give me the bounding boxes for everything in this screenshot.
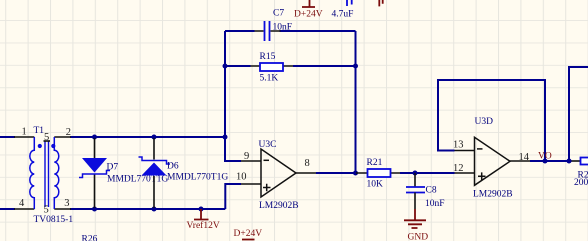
minus sign [264,159,270,161]
svg-text:4: 4 [19,198,25,209]
wire U3D feedback loop [438,80,545,161]
svg-text:D+24V: D+24V [234,229,263,239]
junction C8 node [413,171,418,176]
wire/pins vertical [153,138,155,208]
svg-text:D6: D6 [167,161,179,171]
pin 10 stub [241,183,261,185]
wire top rail y=137 from left edge to x=225 [0,136,225,138]
anode triangle [82,158,107,173]
capacitor C8 [406,173,445,209]
diode D6 [139,138,229,208]
svg-text:2: 2 [66,127,71,138]
junction R15 right [353,64,358,69]
wire R15 row y=66 [225,65,356,67]
svg-text:Vref12V: Vref12V [187,220,220,231]
svg-text:1: 1 [22,126,27,137]
op-amp U3D [453,117,530,200]
svg-text:3: 3 [64,198,69,209]
power port D+24V top [294,0,323,20]
svg-text:U3C: U3C [259,140,277,150]
svg-text:R15: R15 [260,52,276,62]
power port D+24V bottom [234,229,263,239]
svg-text:5.1K: 5.1K [260,74,279,84]
wire bottom rail y=209 from left edge to x=225.3 [0,208,225,210]
anode triangle [142,163,167,176]
svg-text:VO: VO [538,152,552,162]
ground GND [404,209,428,241]
power port Vref12V [187,209,220,231]
svg-text:10: 10 [236,171,247,182]
svg-text:U3D: U3D [475,117,494,127]
svg-text:200: 200 [574,178,588,188]
svg-text:LM2902B: LM2902B [259,201,299,211]
wire right vertical x=355.5 [355,31,357,173]
right winding [54,137,59,209]
svg-text:14: 14 [519,152,530,163]
svg-text:TV0815-1: TV0815-1 [34,215,74,225]
wire from pin 10 down to bottom rail [225,184,241,209]
shield lines [45,141,49,207]
junction x=569 [567,159,572,164]
junction dots on rails [92,135,97,140]
wire C7 top horizontal y=31 [225,30,356,32]
polarity dot left [38,144,42,148]
op-amp U3C [236,140,316,211]
svg-text:LM2902B: LM2902B [473,190,513,200]
capacitor C7 [255,9,293,41]
transformer T1 [14,126,73,225]
minus sign [477,148,483,150]
wire/pins vertical [94,138,96,208]
wire U3D output y=161 [530,160,572,162]
pin 12 stub [455,172,475,174]
svg-text:C7: C7 [273,9,284,19]
svg-text:R21: R21 [367,158,383,168]
plus sign [478,172,486,180]
resistor partial at right edge [572,158,588,188]
pin 1 [14,136,34,138]
svg-text:12: 12 [453,163,464,174]
svg-text:D7: D7 [107,162,119,172]
svg-text:8: 8 [305,158,310,169]
svg-text:4.7uF: 4.7uF [332,10,354,20]
resistor R21 [356,158,400,189]
svg-text:5: 5 [44,132,49,143]
schottky cathode bar [79,171,110,178]
polarity dot right [51,144,55,148]
svg-text:10nF: 10nF [273,22,293,32]
svg-text:GND: GND [408,233,429,241]
junction R15 left [223,64,228,69]
junction feedback/output [543,159,548,164]
junction output/feedback [353,171,358,176]
svg-text:T1: T1 [34,126,45,136]
svg-text:MMDL770T1G: MMDL770T1G [107,175,168,185]
capacitor 4.7uF fragment at top edge [332,0,354,20]
power symbol fragment top right [379,0,382,6]
wire output row y=173 [316,172,455,174]
pin 13 stub [455,150,475,152]
pin 2 [54,136,71,138]
pin 4 [14,208,34,210]
pin 14 stub [510,160,530,162]
plus sign [263,184,271,191]
svg-text:R26: R26 [82,235,98,241]
svg-text:10nF: 10nF [425,199,445,209]
resistor R15 [251,52,294,84]
svg-text:MMDL770T1G: MMDL770T1G [167,173,228,183]
pin 3 [54,208,71,210]
svg-text:13: 13 [453,140,464,151]
schottky cathode bar [139,157,171,164]
pin 8 stub [296,172,316,174]
svg-text:9: 9 [244,151,249,162]
left winding [30,137,35,209]
svg-text:D+24V: D+24V [294,10,323,20]
svg-text:C8: C8 [426,186,437,196]
svg-text:10K: 10K [367,179,384,189]
wire from C7 top corner down to pin 9 [225,31,241,161]
wire vertical x=569 to top right [569,67,588,161]
diode D7 [79,138,168,208]
pin 9 stub [241,160,261,162]
